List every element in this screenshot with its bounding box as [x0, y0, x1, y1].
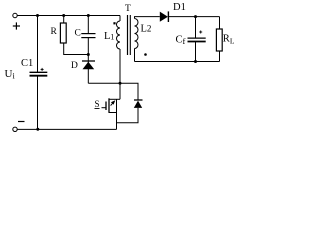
- transistor Q switch gate lead: [102, 107, 107, 109]
- wire R lower lead: [64, 43, 89, 55]
- diode body: [134, 100, 143, 108]
- transformer core: [128, 15, 131, 55]
- node junction C top: [87, 14, 90, 17]
- transistor arrow: [111, 100, 116, 105]
- wire bottom rail primary: [17, 128, 116, 130]
- svg-text:D1: D1: [173, 2, 186, 13]
- wire snubber bottom: [88, 82, 120, 84]
- svg-text:C1: C1: [21, 58, 33, 69]
- wire top rail primary: [17, 15, 120, 17]
- svg-text:C: C: [75, 29, 81, 39]
- wire secondary bottom rail: [135, 61, 220, 63]
- transistor channel bar: [108, 98, 110, 113]
- node L2 phase dot: [144, 53, 147, 56]
- minus sign: [18, 121, 25, 123]
- wire body diode top: [120, 83, 138, 100]
- input terminal top-left: [13, 13, 17, 17]
- wire Cf lower lead: [195, 42, 197, 62]
- capacitor C1: [30, 68, 48, 76]
- transistor gate bar: [105, 102, 107, 111]
- wire L1 bottom to drain: [119, 49, 121, 99]
- svg-text:R: R: [51, 27, 58, 37]
- input terminal bottom-left: [13, 127, 17, 131]
- node junction R top: [62, 14, 65, 17]
- capacitor Cf: [188, 31, 206, 42]
- node junction C1 bottom: [36, 128, 39, 131]
- wire RL lower lead: [219, 51, 221, 62]
- node L1 phase dot: [113, 22, 115, 24]
- node junction Cf top: [194, 15, 197, 18]
- wire Cf upper lead: [195, 17, 197, 38]
- wire body diode bottom: [117, 108, 139, 123]
- wire L1 top lead: [119, 16, 121, 22]
- resistor R: [60, 23, 66, 43]
- svg-text:D: D: [71, 61, 78, 71]
- wire source down: [116, 99, 118, 129]
- wire drain stub: [109, 98, 120, 100]
- wire C1 upper lead: [37, 16, 39, 73]
- wire L2 bottom lead: [134, 49, 136, 62]
- svg-text:L2: L2: [141, 23, 152, 34]
- wire RL upper lead: [219, 17, 221, 29]
- svg-text:Ui: Ui: [5, 68, 16, 81]
- svg-text:Cf: Cf: [176, 34, 186, 46]
- wire secondary top rail: [168, 16, 219, 18]
- wire C1 lower lead: [37, 76, 39, 130]
- inductor L2 secondary winding: [135, 19, 139, 49]
- wire R upper lead: [63, 16, 65, 24]
- svg-text:S: S: [95, 99, 100, 109]
- node junction RC: [87, 53, 90, 56]
- diode D1: [160, 11, 169, 22]
- svg-text:L1: L1: [104, 31, 114, 42]
- inductor L1 primary winding: [116, 21, 120, 49]
- node junction drain: [119, 82, 122, 85]
- wire L2 top lead: [135, 17, 160, 19]
- diode D: [82, 61, 95, 69]
- plus sign: [13, 22, 20, 29]
- svg-text:T: T: [125, 4, 131, 14]
- wire source stub: [109, 112, 117, 114]
- wire snubber vertical: [87, 38, 89, 84]
- wire C upper lead: [87, 16, 89, 34]
- resistor RL: [216, 29, 222, 51]
- node junction C1 top: [36, 14, 39, 17]
- node junction Cf bottom: [194, 60, 197, 63]
- capacitor C: [81, 34, 95, 38]
